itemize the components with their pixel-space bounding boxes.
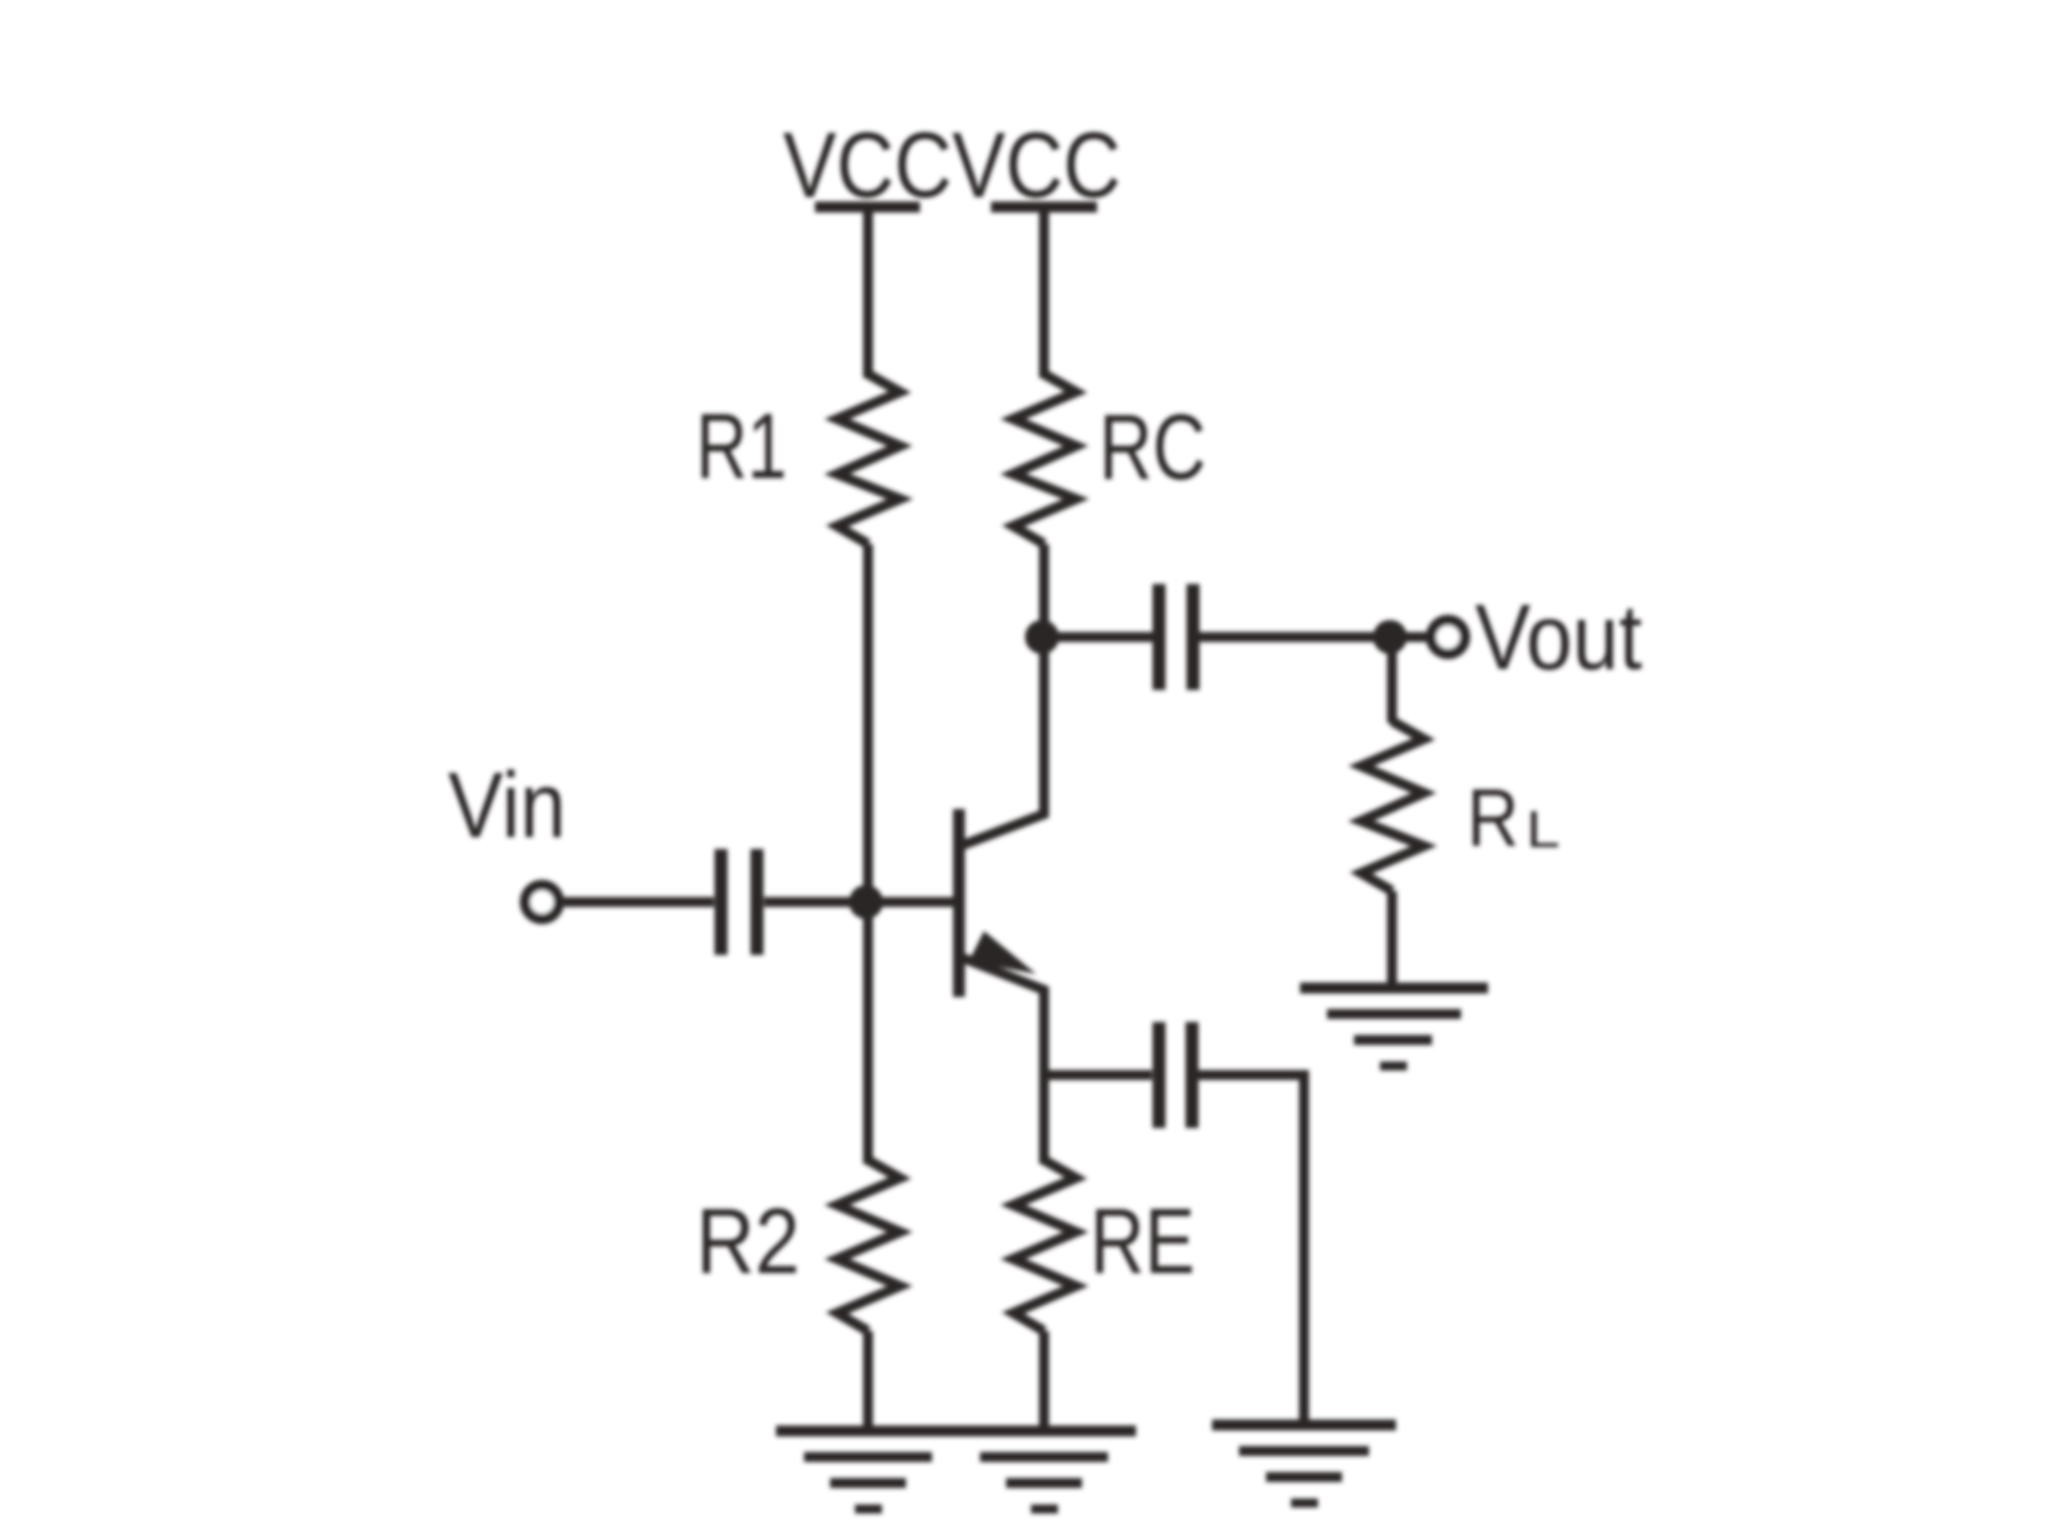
svg-text:RE: RE (1090, 1189, 1195, 1293)
svg-text:RC: RC (1099, 395, 1206, 499)
svg-text:Vout: Vout (1475, 585, 1642, 689)
svg-text:VCCVCC: VCCVCC (783, 113, 1121, 217)
svg-text:L: L (1526, 801, 1560, 859)
svg-text:R: R (1467, 773, 1519, 864)
svg-text:R1: R1 (696, 394, 787, 498)
svg-text:R2: R2 (696, 1189, 800, 1293)
svg-text:Vin: Vin (448, 753, 566, 857)
